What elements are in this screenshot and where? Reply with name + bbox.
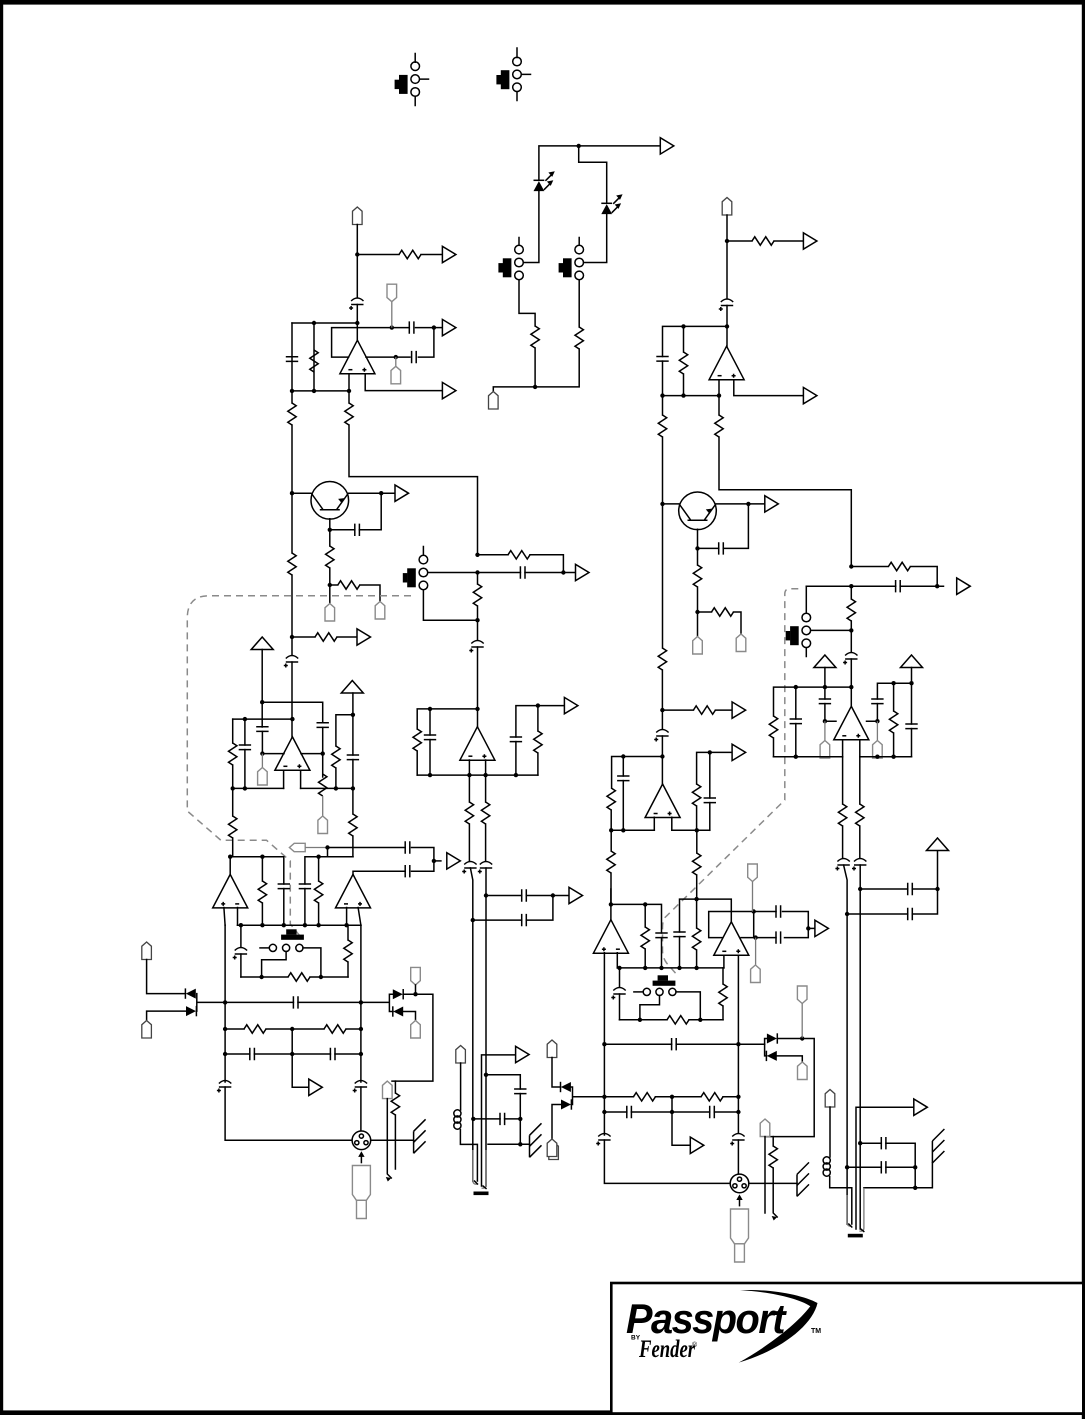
node J65 bbox=[551, 893, 555, 897]
wire pot2 right bbox=[676, 992, 700, 1020]
connector P24 bbox=[798, 1062, 808, 1080]
node J60 bbox=[484, 1073, 488, 1077]
node J76 bbox=[695, 610, 699, 614]
node J110 bbox=[698, 1018, 702, 1022]
resistor R41 bbox=[851, 566, 888, 568]
connector P2 (U1L input) bbox=[353, 207, 363, 225]
node J58 bbox=[359, 1052, 363, 1056]
node J43 bbox=[239, 923, 243, 927]
node J88 bbox=[849, 685, 853, 689]
wire row 572.5 bbox=[428, 572, 576, 574]
node J39 bbox=[432, 859, 436, 863]
resistor R43 bbox=[769, 716, 777, 738]
node J104 bbox=[694, 966, 698, 970]
node J47 bbox=[316, 923, 320, 927]
connector P17 bbox=[736, 634, 746, 652]
pot VR2 bbox=[658, 975, 668, 980]
wire flag row bbox=[305, 847, 327, 849]
wire arrow feed bbox=[482, 1055, 516, 1186]
resistor R37 bbox=[607, 788, 615, 810]
node J97 bbox=[891, 755, 895, 759]
ground G1 bbox=[414, 1119, 426, 1153]
node J67 bbox=[725, 239, 729, 243]
wire U1L top rail bbox=[292, 322, 357, 324]
wire to R3 bbox=[357, 254, 399, 256]
wire diode joiner bbox=[147, 994, 226, 1021]
switch S2 (top legend) bbox=[496, 48, 530, 101]
node J5 bbox=[355, 321, 359, 325]
arrow connector A21 bbox=[914, 1099, 928, 1115]
wire U2L base stubs bbox=[284, 770, 301, 788]
connector P25 bbox=[760, 1119, 770, 1137]
ground G2 bbox=[530, 1123, 542, 1157]
diode CR5 bbox=[767, 1033, 777, 1043]
op-amp U4A bbox=[336, 874, 371, 908]
wire C9 down bbox=[322, 728, 324, 778]
resistor R22 bbox=[318, 857, 320, 881]
node J116 bbox=[736, 1095, 740, 1099]
connector P26 bbox=[547, 1040, 557, 1058]
wire U5R stubs bbox=[604, 953, 617, 1135]
capacitor C19 bbox=[299, 884, 311, 889]
resistor R50 bbox=[667, 1016, 689, 1024]
capacitor C20 bbox=[278, 884, 290, 889]
wire spk cols right ch bbox=[844, 865, 861, 1229]
wire apex row bbox=[353, 861, 434, 875]
node J70 bbox=[660, 393, 664, 397]
LED D1 bbox=[534, 171, 555, 191]
resistor R14 bbox=[319, 774, 327, 796]
node J22 bbox=[243, 717, 247, 721]
node J59 bbox=[413, 992, 417, 996]
capacitor C21 electrolytic col bbox=[240, 925, 242, 947]
node J63 bbox=[518, 1142, 522, 1146]
wire +out to arrow bbox=[734, 380, 804, 396]
resistor R47 bbox=[644, 904, 646, 927]
resistor R13 col bbox=[232, 719, 234, 743]
node J91 bbox=[823, 719, 827, 723]
jack J-R base bar bbox=[848, 1234, 863, 1238]
resistor R42 bbox=[850, 586, 852, 599]
diode CR1 bbox=[185, 988, 195, 998]
node J84 bbox=[849, 564, 853, 568]
wire left col bbox=[292, 323, 314, 391]
node J68 bbox=[681, 324, 685, 328]
wire P28 down bbox=[829, 1107, 831, 1157]
node J15 bbox=[328, 583, 332, 587]
feedback box U4B bbox=[709, 912, 809, 938]
resistor R23 bbox=[261, 857, 263, 881]
wire DIN right bbox=[749, 1182, 797, 1184]
resistor R38 bbox=[692, 784, 700, 806]
DIN connector CN1 bbox=[352, 1131, 371, 1163]
resistor R40 col down bbox=[696, 830, 698, 853]
resistor R18 bbox=[413, 729, 421, 751]
wire Q2 collector bbox=[716, 503, 765, 505]
node J126 bbox=[913, 1186, 917, 1190]
arrow connector A14 bbox=[803, 387, 817, 403]
node J26 bbox=[243, 786, 247, 790]
node J119 bbox=[736, 1110, 740, 1114]
wire U2R bottom rails bbox=[611, 829, 710, 831]
wire flag stem bbox=[327, 848, 329, 857]
dashed boundary right bbox=[663, 589, 799, 976]
resistor R2 bbox=[575, 327, 583, 349]
wire R7 down bbox=[329, 568, 331, 604]
node J29 bbox=[351, 786, 355, 790]
wire C34 down bbox=[661, 736, 663, 784]
op-amp U3B bbox=[834, 706, 869, 740]
resistor R51 hanging bbox=[772, 1137, 774, 1146]
capacitor C13 bbox=[429, 709, 431, 735]
wire P2 down bbox=[356, 225, 358, 298]
node J80 bbox=[609, 828, 613, 832]
resistor R24 col bbox=[347, 925, 349, 940]
wire P3 stem bbox=[391, 302, 393, 328]
wire R33 down bbox=[697, 587, 699, 637]
LED D2 bbox=[601, 194, 622, 214]
wire row 1044.2 + capacitor C50 bbox=[604, 1043, 764, 1045]
node J121 bbox=[935, 887, 939, 891]
node J61 bbox=[471, 1117, 475, 1121]
capacitor C49 electrolytic col bbox=[619, 968, 621, 987]
DIN connector CN3 bbox=[730, 1174, 749, 1206]
node J23 bbox=[290, 717, 294, 721]
switch S5 bbox=[403, 547, 478, 621]
wire T4 down / right rail bbox=[877, 668, 911, 725]
probe hook bbox=[772, 1216, 778, 1221]
wire ground row right bbox=[864, 1163, 933, 1188]
ground G3 bbox=[797, 1162, 809, 1196]
arrow connector A4 bbox=[442, 382, 456, 398]
node J49 bbox=[259, 975, 263, 979]
capacitor C41 bbox=[871, 699, 883, 704]
capacitor C10 bbox=[256, 727, 268, 732]
capacitor C11 col bbox=[244, 719, 246, 745]
connector P18 bbox=[693, 637, 703, 655]
wire P23 stem bbox=[801, 1004, 803, 1039]
node J106 bbox=[752, 909, 756, 913]
resistor R11 bbox=[478, 554, 509, 556]
node J92 bbox=[891, 681, 895, 685]
wire rail 967.9 bbox=[617, 967, 724, 969]
wire to DIN right ch bbox=[604, 1140, 738, 1183]
capacitor C32 bbox=[656, 357, 668, 362]
capacitor C42 bbox=[905, 724, 917, 729]
wire P16 down bbox=[726, 215, 728, 299]
wire U3R left rail bbox=[774, 687, 852, 716]
resistor R6 bbox=[348, 391, 350, 403]
node J95 bbox=[794, 755, 798, 759]
feedback box wires U1A bbox=[332, 328, 434, 358]
node J99 bbox=[643, 902, 647, 906]
wire LED2 to switch S4 bbox=[584, 214, 607, 263]
wire U1R bottom rail bbox=[663, 380, 720, 396]
node J52 bbox=[359, 1000, 363, 1004]
node J96 bbox=[875, 755, 879, 759]
plug CN2 bbox=[352, 1166, 370, 1219]
node J25 bbox=[321, 751, 325, 755]
jack J-L prongs bbox=[473, 1150, 486, 1188]
switch S3 bbox=[498, 238, 535, 327]
wire bottom of S3/S4 bbox=[493, 348, 579, 392]
arrow connector A2 bbox=[442, 246, 456, 262]
resistor R12 bbox=[477, 573, 479, 585]
node J83 bbox=[708, 750, 712, 754]
power triangle T1 bbox=[251, 637, 273, 650]
capacitor C14 bbox=[510, 737, 522, 742]
node J38 bbox=[325, 845, 329, 849]
capacitor C8 electrolytic bbox=[469, 641, 483, 653]
node J86 bbox=[935, 584, 939, 588]
resistor R35 bbox=[658, 648, 666, 670]
capacitor C17 bbox=[405, 841, 410, 853]
wire U2R stubs bbox=[654, 817, 672, 830]
wire U2L row B bbox=[233, 718, 293, 720]
wire row 1112 bbox=[604, 1097, 738, 1112]
wire net LED top rail bbox=[539, 146, 660, 180]
node J54 bbox=[290, 1027, 294, 1031]
wire diode joiner 2 bbox=[361, 985, 433, 1081]
wire probe line left (right ch) bbox=[764, 1137, 766, 1213]
logo box bbox=[611, 1283, 1083, 1414]
wire U5R rail bbox=[611, 889, 662, 933]
resistor R44 bbox=[893, 683, 895, 711]
power triangle T4 bbox=[901, 655, 923, 668]
node J82 bbox=[695, 828, 699, 832]
arrow connector A1 bbox=[660, 138, 674, 154]
node J17 bbox=[475, 553, 479, 557]
potentiometer VR1 (black knob) bbox=[286, 929, 296, 934]
connector P14 (inductor feed) bbox=[456, 1046, 466, 1064]
node J71 bbox=[681, 393, 685, 397]
connector P22 bbox=[755, 938, 757, 965]
jack J-L base bar bbox=[474, 1192, 489, 1196]
diode CR4 bbox=[393, 1006, 403, 1016]
ground G4 bbox=[932, 1129, 944, 1163]
node J57 bbox=[290, 1052, 294, 1056]
wire U2R rail bbox=[612, 757, 663, 789]
svg-text:®: ® bbox=[692, 1341, 698, 1349]
resistor R17 col down to U4L bbox=[352, 788, 354, 814]
transistor Q1 bbox=[311, 482, 349, 520]
node J69 bbox=[725, 324, 729, 328]
wire U5L stubs bbox=[224, 908, 238, 926]
node J125 bbox=[913, 1165, 917, 1169]
node J108 bbox=[806, 926, 810, 930]
node J50 bbox=[319, 975, 323, 979]
capacitor C46 bbox=[673, 932, 685, 937]
wire row 1029 bbox=[225, 1028, 361, 1030]
switch S4 bbox=[559, 238, 584, 328]
node J46 bbox=[303, 923, 307, 927]
plug CN4 bbox=[731, 1209, 749, 1262]
node J12 bbox=[290, 491, 294, 495]
wire probe lines bbox=[387, 1099, 395, 1178]
node J37 bbox=[514, 773, 518, 777]
node J56 bbox=[223, 1052, 227, 1056]
node J27 bbox=[231, 786, 235, 790]
resistor R1 bbox=[531, 326, 539, 348]
capacitor C47 bbox=[776, 905, 781, 917]
wire row 1019.8 bbox=[620, 1019, 724, 1021]
node J45 bbox=[282, 923, 286, 927]
node J1 bbox=[577, 144, 581, 148]
wire U4L stubs bbox=[347, 908, 361, 926]
resistor R7 bbox=[326, 546, 334, 568]
power triangle T2 bbox=[341, 681, 363, 694]
wire row 1167.3 + capacitor C58 bbox=[847, 1166, 915, 1168]
wire C10 down bbox=[261, 732, 263, 754]
capacitor C6 electrolytic bbox=[284, 656, 298, 668]
capacitor C31 electrolytic bbox=[719, 299, 733, 311]
connector P21 (inverted) bbox=[748, 864, 758, 882]
wire U2L input rows bbox=[262, 753, 322, 755]
jack J-L tip marks bbox=[475, 1181, 487, 1189]
node J101 bbox=[643, 966, 647, 970]
arrow connector A20 bbox=[690, 1137, 704, 1153]
resistor R9 bbox=[288, 553, 296, 575]
wire row 586 + capacitor C37 bbox=[806, 585, 943, 587]
resistor R5 bbox=[291, 391, 293, 403]
capacitor C24 bbox=[330, 1048, 335, 1060]
diode CR2 bbox=[186, 1006, 196, 1016]
node J66 bbox=[471, 918, 475, 922]
jack J-R tip marks bbox=[849, 1224, 864, 1232]
wire diode joiner 4 bbox=[552, 1087, 604, 1139]
arrow connector A7 bbox=[576, 564, 590, 580]
wire C1 to rail bbox=[356, 305, 358, 341]
node J32 bbox=[475, 707, 479, 711]
node J87 bbox=[849, 628, 853, 632]
wire row 1002 + capacitor C22 bbox=[225, 1001, 361, 1003]
node J33 bbox=[536, 703, 540, 707]
wire DIN right to ground bbox=[371, 1139, 414, 1141]
node J105 bbox=[694, 897, 698, 901]
power triangle T3 bbox=[814, 655, 836, 668]
capacitor C38 electrolytic bbox=[843, 653, 857, 665]
node J6 bbox=[390, 325, 394, 329]
wire C31 down bbox=[726, 306, 728, 347]
arrow connector A10 bbox=[309, 1079, 323, 1095]
connector P7 bbox=[261, 754, 263, 768]
node J62 bbox=[518, 1117, 522, 1121]
connector P19 bbox=[824, 721, 826, 740]
capacitor C9 bbox=[317, 723, 329, 728]
node J35 bbox=[467, 773, 471, 777]
wire row D bbox=[233, 787, 284, 789]
capacitor C48 bbox=[776, 931, 781, 943]
resistor R3 bbox=[399, 250, 421, 258]
resistor R31 col bbox=[662, 396, 664, 415]
node J3 bbox=[355, 252, 359, 256]
resistor R48 bbox=[696, 899, 698, 928]
node J48 bbox=[344, 923, 348, 927]
node J123 bbox=[858, 1141, 862, 1145]
resistor R21 col bbox=[485, 775, 487, 802]
capacitor C54 electrolytic bbox=[730, 1134, 744, 1146]
wire spk drive right ch bbox=[765, 1039, 814, 1137]
wire x292 down to U2L bbox=[291, 493, 293, 553]
connector P8 bbox=[322, 796, 324, 816]
node J102 bbox=[659, 966, 663, 970]
node J120 bbox=[858, 887, 862, 891]
op-amp U5A bbox=[213, 874, 248, 908]
diode CR3 bbox=[393, 989, 403, 999]
node J19 bbox=[561, 570, 565, 574]
op-amp U1A bbox=[340, 340, 375, 374]
node J55 bbox=[359, 1027, 363, 1031]
capacitor C44 electrolytic bbox=[852, 859, 866, 871]
connector P13 bbox=[383, 1081, 393, 1099]
connector P5 bbox=[325, 604, 335, 622]
inductor L1 bbox=[454, 1110, 461, 1129]
resistor R49 col bbox=[722, 968, 724, 984]
wire Q1 emitter / C5 loop bbox=[330, 493, 381, 546]
wire T2 down bbox=[352, 693, 354, 755]
resistor R25 bbox=[288, 973, 310, 981]
connector P4 bbox=[395, 357, 397, 366]
logo swoosh bbox=[739, 1290, 818, 1363]
resistor R52 bbox=[633, 1093, 655, 1101]
node J112 bbox=[736, 1042, 740, 1046]
capacitor C26 electrolytic bbox=[353, 1081, 367, 1093]
node J34 bbox=[428, 773, 432, 777]
node J77 bbox=[660, 708, 664, 712]
resistor R32 col bbox=[718, 396, 720, 415]
resistor R53 bbox=[701, 1093, 723, 1101]
node J30 bbox=[351, 713, 355, 717]
wire U3R bottom rails bbox=[774, 740, 912, 757]
op-amp U5B bbox=[593, 920, 628, 954]
node J40 bbox=[316, 855, 320, 859]
wire P9 to diode bbox=[147, 960, 186, 994]
node J21 bbox=[260, 700, 264, 704]
connector P28 (spk inductor feed) bbox=[825, 1090, 835, 1108]
node J118 bbox=[670, 1110, 674, 1114]
capacitor C12 bbox=[347, 755, 359, 760]
wire to DIN bbox=[225, 1087, 361, 1140]
capacitor C2 bbox=[286, 357, 298, 362]
wire x662 down to U2R bbox=[662, 504, 664, 648]
wire U4L top rail bbox=[305, 857, 353, 884]
arrow connector A19 bbox=[808, 927, 815, 929]
wire diode joiner 3 bbox=[765, 1039, 803, 1063]
node J13 bbox=[379, 491, 383, 495]
capacitor C52 bbox=[710, 1106, 715, 1118]
node J64 bbox=[484, 893, 488, 897]
node J89 bbox=[794, 685, 798, 689]
capacitor C53 electrolytic bbox=[596, 1134, 610, 1146]
node J18 bbox=[475, 570, 479, 574]
wire row 895.5 + capacitor C29 bbox=[486, 895, 569, 897]
wire row E bbox=[301, 787, 353, 789]
capacitor C25 electrolytic bbox=[217, 1081, 231, 1093]
resistor R19 bbox=[537, 706, 539, 731]
wire C8 down to U3L bbox=[477, 647, 479, 727]
wire row 920.1 + capacitor C30 bbox=[473, 896, 553, 921]
svg-text:Fender: Fender bbox=[638, 1336, 695, 1363]
arrow connector A11 bbox=[516, 1046, 530, 1062]
transistor Q2 bbox=[679, 492, 717, 530]
capacitor C34 electrolytic bbox=[654, 730, 668, 742]
wire row 1096.8 bbox=[604, 1096, 738, 1098]
wire U3L top rail bbox=[417, 709, 477, 729]
wire ground row bbox=[488, 1143, 530, 1145]
wire Q1 base bbox=[292, 492, 311, 494]
capacitor C16 electrolytic bbox=[478, 862, 492, 874]
pot circles bbox=[269, 944, 276, 951]
